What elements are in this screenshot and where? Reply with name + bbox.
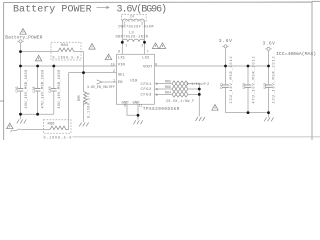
- svg-text:U19: U19: [130, 80, 138, 84]
- svg-text:1: 1: [113, 79, 115, 83]
- svg-text:R84: R84: [61, 44, 69, 48]
- svg-text:R85: R85: [77, 95, 81, 101]
- svg-text:20.5K_1/8W_F: 20.5K_1/8W_F: [166, 99, 195, 103]
- svg-text:R65: R65: [165, 80, 171, 84]
- svg-text:CFG3: CFG3: [141, 94, 153, 98]
- svg-text:3.6V(BG96): 3.6V(BG96): [117, 3, 167, 15]
- svg-text:DBR70528-2R2N: DBR70528-2R2N: [116, 34, 149, 38]
- svg-text:11: 11: [139, 103, 143, 107]
- svg-text:C42: C42: [263, 83, 267, 89]
- svg-text:1: 1: [125, 43, 127, 47]
- svg-text:CFG1: CFG1: [141, 83, 153, 87]
- svg-text:R86: R86: [48, 123, 56, 127]
- svg-text:22U_16V_M5R_2012: 22U_16V_M5R_2012: [230, 55, 234, 103]
- svg-text:C40: C40: [48, 87, 52, 93]
- svg-text:2: 2: [113, 69, 115, 73]
- svg-text:1: 1: [124, 21, 126, 25]
- svg-text:C41: C41: [219, 83, 223, 89]
- svg-text:3.6V_EN_ON/OFF: 3.6V_EN_ON/OFF: [87, 85, 115, 89]
- svg-text:2: 2: [141, 43, 143, 47]
- svg-text:7: 7: [147, 49, 149, 53]
- svg-text:SEL: SEL: [118, 74, 126, 78]
- svg-text:CFG2: CFG2: [141, 88, 153, 92]
- svg-text:10U_10V_M5R_1608: 10U_10V_M5R_1608: [58, 69, 62, 108]
- svg-text:3: 3: [156, 82, 158, 86]
- svg-text:TPS63900DSKR: TPS63900DSKR: [143, 108, 180, 112]
- svg-text:4: 4: [156, 87, 158, 91]
- svg-text:EN: EN: [118, 81, 123, 85]
- svg-text:0_1608_5-0: 0_1608_5-0: [44, 136, 73, 140]
- svg-text:47U_10V_M5R_1608: 47U_10V_M5R_1608: [42, 69, 46, 108]
- svg-text:LX1: LX1: [118, 57, 126, 61]
- svg-text:R64: R64: [165, 90, 171, 94]
- svg-text:0_1608_5-0: 0_1608_5-0: [87, 92, 91, 118]
- svg-text:0.1/10uH*2: 0.1/10uH*2: [187, 82, 210, 86]
- svg-text:47U_10V_M5R_2012: 47U_10V_M5R_2012: [253, 55, 257, 103]
- svg-text:C64: C64: [242, 83, 246, 89]
- svg-text:Battery POWER: Battery POWER: [13, 4, 92, 15]
- svg-text:LX2: LX2: [142, 57, 150, 61]
- svg-text:10: 10: [111, 62, 115, 66]
- svg-text:Battery_POWER: Battery_POWER: [5, 34, 42, 40]
- svg-text:0_1608_5-0: 0_1608_5-0: [53, 55, 80, 59]
- svg-text:R66: R66: [165, 85, 171, 89]
- svg-text:8: 8: [155, 62, 157, 66]
- svg-text:VIN: VIN: [118, 64, 126, 68]
- svg-text:9: 9: [118, 49, 120, 53]
- svg-text:3.6V: 3.6V: [219, 38, 233, 44]
- svg-text:2: 2: [141, 21, 143, 25]
- svg-text:C38: C38: [32, 87, 36, 93]
- svg-text:ICC=400mA(MAX): ICC=400mA(MAX): [276, 51, 316, 57]
- svg-text:22U_16V_M5R_2012: 22U_16V_M5R_2012: [273, 55, 277, 103]
- svg-text:6: 6: [124, 104, 126, 108]
- svg-text:3.6V: 3.6V: [263, 41, 276, 47]
- svg-text:C39: C39: [15, 87, 19, 93]
- svg-text:C4: C4: [130, 15, 134, 19]
- svg-text:10U_10V_M5R_1608: 10U_10V_M5R_1608: [25, 69, 29, 108]
- svg-text:VOUT: VOUT: [143, 65, 153, 69]
- svg-text:5: 5: [156, 93, 158, 97]
